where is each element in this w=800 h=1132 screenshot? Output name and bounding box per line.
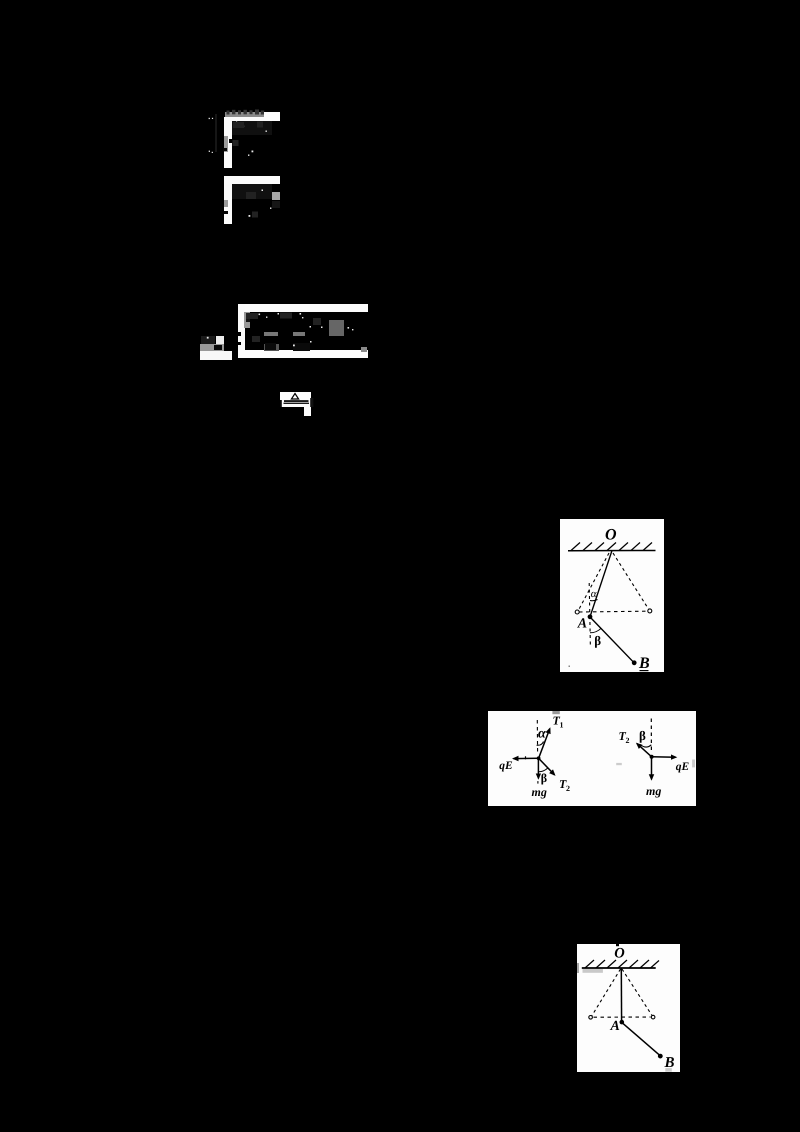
force qE arrow (left diagram): [514, 757, 539, 759]
patch2 dark block below gray: [272, 201, 280, 207]
patch2 black brace tick: [224, 211, 228, 215]
patch1 dark teeth above bar: [224, 109, 266, 115]
remnant white bottom bar: [200, 351, 232, 360]
left diagram: node: [537, 757, 541, 761]
gray nick left edge: [577, 963, 579, 973]
tick on qE line: [525, 756, 527, 759]
right phantom circle: [651, 1015, 655, 1019]
stray dot bottom-left: [569, 666, 571, 668]
force T2 arrow (right diagram): [637, 744, 652, 757]
dashed horizontal line: [593, 1016, 650, 1018]
triangle patch white rect: [280, 392, 311, 407]
main block black descender b: [293, 343, 310, 351]
gray block bottom right: [665, 1068, 672, 1072]
dashed line O to left circle: [578, 553, 609, 611]
dashed line O to right circle: [613, 553, 649, 610]
main block dark marks on gray: [246, 316, 251, 323]
force T2 arrow (left diagram): [539, 758, 555, 775]
gray smudge under ceiling: [582, 969, 602, 973]
point A dot: [619, 1019, 624, 1024]
force qE arrow (right diagram): [652, 756, 676, 758]
dashed horizontal line: [579, 610, 647, 613]
left phantom circle: [588, 1015, 592, 1019]
remnant black glyph on gray bar: [214, 345, 222, 350]
remnant white square: [216, 336, 224, 344]
gray dashes left edge: [616, 763, 622, 765]
dashed vertical through A: [589, 583, 590, 648]
rod AB: [622, 1022, 660, 1055]
patch1 gray sub-strip: [224, 136, 228, 152]
main block right gray bit: [361, 347, 368, 352]
top notch: [616, 944, 619, 946]
right diagram: node: [650, 755, 654, 759]
right phantom circle: [648, 609, 652, 613]
patch1 white top bar: [227, 117, 281, 121]
left phantom circle: [575, 610, 579, 614]
main block left brace tick upper: [238, 332, 241, 336]
alpha arc: [590, 600, 598, 601]
rod AB: [590, 617, 634, 663]
patch1 faint equation fragment: [249, 122, 255, 128]
ceiling line: [568, 550, 656, 552]
underline below B: [640, 670, 649, 672]
beta arc right: [640, 745, 651, 748]
force mg arrow (right diagram): [651, 757, 653, 779]
triangle patch white foot: [304, 407, 311, 415]
main block black descender a: [265, 343, 276, 351]
ceiling line: [581, 967, 655, 969]
dashed line O to right circle: [622, 969, 652, 1016]
gray bar right edge: [692, 760, 695, 768]
patch1 gray glyph-top bar: [225, 112, 264, 117]
patch1 white top-right block: [264, 112, 281, 121]
patch1 left white strip: [224, 117, 232, 168]
patch2 white top bar: [224, 176, 280, 184]
alpha angle tick: [537, 742, 544, 746]
right glyph 2: [310, 398, 313, 407]
left tick: [280, 400, 282, 407]
dashed vertical above node (right diagram): [650, 719, 652, 753]
dashed line O to left circle: [592, 969, 621, 1016]
triangle-equals symbol: [280, 392, 316, 416]
main block gray row fragment a: [264, 332, 278, 336]
patch1 black brace tick: [223, 148, 227, 151]
remnant gray bar: [200, 344, 224, 351]
patch1 faint equation row: [232, 121, 272, 135]
patch2 faint equation row: [232, 184, 272, 199]
point A dot: [588, 614, 593, 619]
force T1 arrow: [539, 729, 550, 759]
string OA: [590, 551, 612, 617]
beta arc: [590, 628, 601, 633]
point B dot: [657, 1053, 662, 1058]
gray mark top edge: [552, 711, 559, 714]
main block gray under-block: [264, 344, 279, 352]
ceiling hatch marks: [585, 960, 659, 968]
force mg arrow (left diagram): [537, 758, 539, 778]
patch2 gray block right: [272, 192, 280, 200]
main block white top bar: [240, 304, 368, 312]
patch2 left white strip: [224, 184, 232, 225]
main block gray center-right block: [329, 320, 344, 336]
string OA vertical: [620, 968, 622, 1022]
remnant dark block: [201, 336, 215, 344]
mg dashed continuation: [537, 781, 539, 785]
main block left brace tick lower: [238, 342, 241, 345]
main block white bottom bar: [240, 350, 368, 358]
faint column line left of patch1: [215, 114, 218, 152]
patch2 gray sub-strip: [224, 200, 228, 207]
beta arc left: [539, 768, 548, 772]
main block gray row fragment b: [293, 332, 305, 336]
dashed vertical above node (left diagram): [536, 720, 538, 754]
double line upper: [284, 400, 309, 402]
double line lower: [284, 403, 310, 404]
point B dot: [632, 660, 637, 665]
main block gray block at strip top: [244, 312, 251, 328]
patch1 black brace dot: [229, 139, 232, 143]
ceiling hatch marks: [571, 543, 652, 551]
small triangle: [291, 394, 298, 400]
main block white left strip: [238, 304, 245, 358]
